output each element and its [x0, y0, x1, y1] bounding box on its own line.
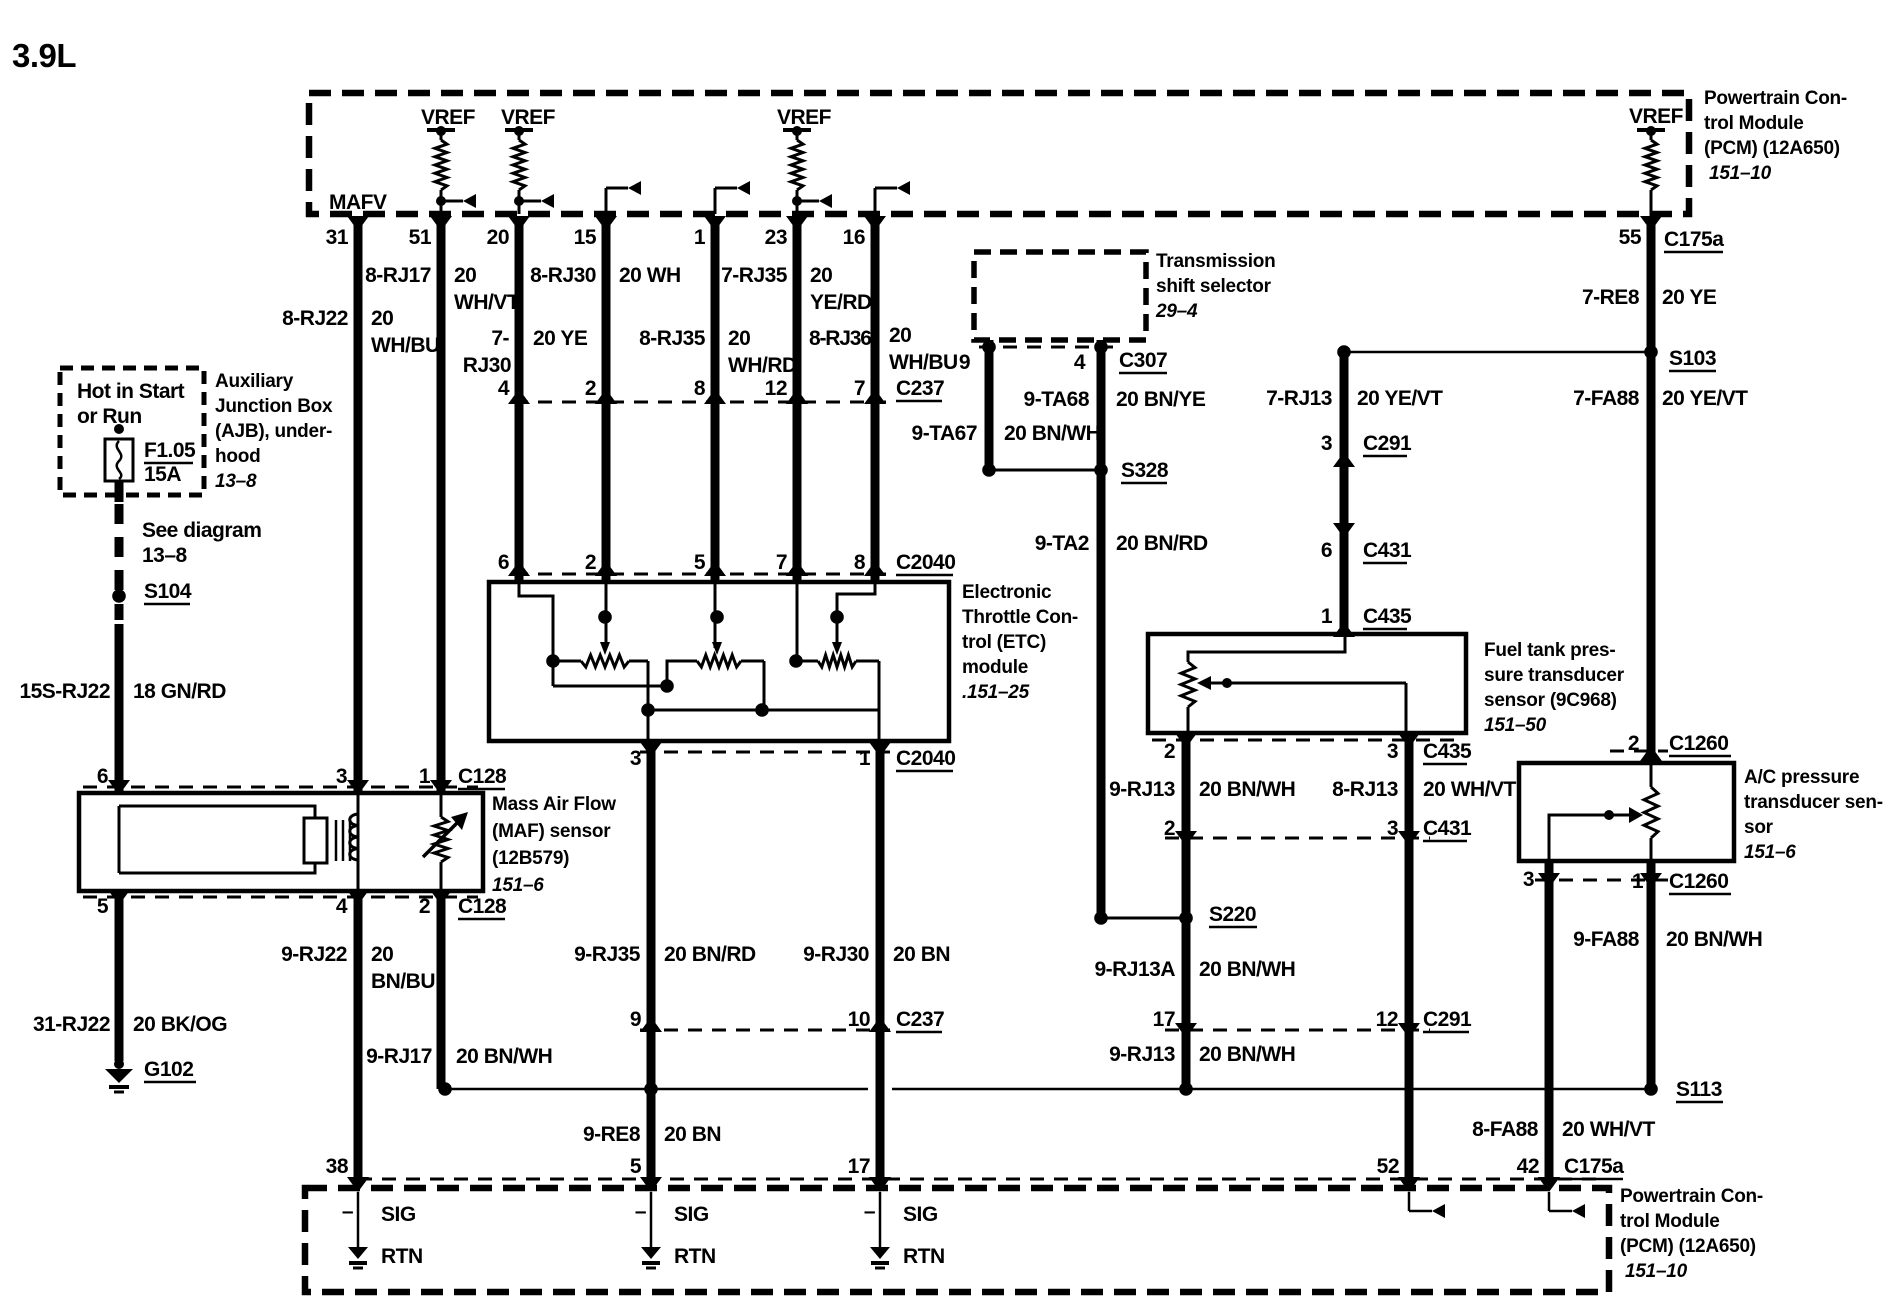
svg-text:C307: C307: [1119, 349, 1167, 372]
svg-text:29–4: 29–4: [1155, 301, 1198, 322]
svg-text:2: 2: [585, 377, 596, 400]
svg-text:20 BN/YE: 20 BN/YE: [1116, 388, 1206, 411]
svg-text:13–8: 13–8: [142, 544, 188, 567]
svg-text:20: 20: [454, 264, 476, 287]
svg-text:Powertrain Con-: Powertrain Con-: [1620, 1186, 1763, 1207]
svg-text:6: 6: [1321, 539, 1332, 562]
svg-text:–: –: [635, 1200, 647, 1223]
svg-text:3: 3: [630, 747, 641, 770]
svg-text:9-TA68: 9-TA68: [1024, 388, 1090, 411]
svg-text:Powertrain Con-: Powertrain Con-: [1704, 88, 1847, 109]
svg-text:1: 1: [1632, 870, 1644, 893]
svg-text:9: 9: [959, 351, 970, 374]
svg-text:20 BN/RD: 20 BN/RD: [1116, 532, 1208, 555]
svg-text:20 YE: 20 YE: [1662, 286, 1717, 309]
svg-text:8-RJ17: 8-RJ17: [365, 264, 431, 287]
svg-text:C1260: C1260: [1669, 732, 1728, 755]
svg-text:SIG: SIG: [674, 1203, 709, 1226]
svg-text:RTN: RTN: [381, 1245, 423, 1268]
svg-text:151–6: 151–6: [1744, 842, 1796, 863]
svg-text:20 WH/VT: 20 WH/VT: [1423, 778, 1517, 801]
svg-text:3: 3: [1321, 432, 1332, 455]
svg-text:SIG: SIG: [381, 1203, 416, 1226]
svg-text:17: 17: [848, 1155, 870, 1178]
svg-text:20 BN: 20 BN: [664, 1123, 721, 1146]
svg-text:23: 23: [765, 226, 787, 249]
svg-text:–: –: [864, 1200, 876, 1223]
svg-text:20 BN/WH: 20 BN/WH: [1004, 422, 1100, 445]
svg-text:20 BN/WH: 20 BN/WH: [1666, 928, 1762, 951]
svg-text:151–50: 151–50: [1484, 715, 1547, 736]
svg-text:trol (ETC): trol (ETC): [962, 632, 1046, 653]
svg-text:trol Module: trol Module: [1620, 1211, 1720, 1232]
svg-text:151–6: 151–6: [492, 875, 544, 896]
svg-text:13–8: 13–8: [215, 471, 257, 492]
svg-text:5: 5: [694, 551, 706, 574]
svg-text:52: 52: [1377, 1155, 1399, 1178]
svg-text:8: 8: [854, 551, 866, 574]
svg-text:20: 20: [810, 264, 832, 287]
svg-text:15A: 15A: [144, 463, 181, 486]
svg-text:C237: C237: [896, 1008, 944, 1031]
svg-text:20: 20: [371, 307, 393, 330]
svg-text:15: 15: [574, 226, 597, 249]
svg-text:4: 4: [336, 895, 348, 918]
svg-text:6: 6: [498, 551, 509, 574]
svg-text:4: 4: [1074, 351, 1086, 374]
svg-text:sure transducer: sure transducer: [1484, 665, 1625, 686]
svg-text:(AJB), under-: (AJB), under-: [215, 421, 332, 442]
svg-text:C128: C128: [458, 765, 507, 788]
svg-text:trol Module: trol Module: [1704, 113, 1804, 134]
svg-text:C2040: C2040: [896, 747, 955, 770]
svg-text:17: 17: [1153, 1008, 1175, 1031]
svg-text:8: 8: [694, 377, 706, 400]
svg-text:VREF: VREF: [777, 106, 832, 129]
svg-text:YE/RD: YE/RD: [810, 291, 872, 314]
svg-text:WH/BU: WH/BU: [371, 334, 440, 357]
svg-text:20: 20: [889, 324, 911, 347]
svg-text:5: 5: [630, 1155, 642, 1178]
svg-text:8-RJ36: 8-RJ36: [809, 327, 871, 350]
svg-text:20: 20: [371, 943, 393, 966]
svg-text:VREF: VREF: [501, 106, 556, 129]
svg-text:3: 3: [1387, 740, 1398, 763]
svg-text:20 BN: 20 BN: [893, 943, 950, 966]
svg-text:C237: C237: [896, 377, 944, 400]
svg-text:20 YE: 20 YE: [533, 327, 588, 350]
svg-text:38: 38: [326, 1155, 349, 1178]
svg-text:20 BN/RD: 20 BN/RD: [664, 943, 756, 966]
svg-text:20 YE/VT: 20 YE/VT: [1357, 387, 1443, 410]
svg-text:1: 1: [1321, 605, 1333, 628]
svg-text:module: module: [962, 657, 1028, 678]
svg-text:C431: C431: [1363, 539, 1412, 562]
svg-text:151–10: 151–10: [1625, 1261, 1688, 1282]
svg-text:RTN: RTN: [674, 1245, 716, 1268]
svg-text:151–10: 151–10: [1709, 163, 1772, 184]
svg-text:sensor (9C968): sensor (9C968): [1484, 690, 1617, 711]
svg-text:8-RJ22: 8-RJ22: [282, 307, 348, 330]
svg-text:VREF: VREF: [1629, 105, 1684, 128]
svg-text:C175a: C175a: [1564, 1155, 1624, 1178]
svg-text:S113: S113: [1676, 1078, 1722, 1101]
svg-text:3: 3: [1523, 868, 1534, 891]
svg-text:5: 5: [97, 895, 109, 918]
svg-text:6: 6: [97, 765, 108, 788]
svg-text:12: 12: [1376, 1008, 1398, 1031]
svg-text:(PCM) (12A650): (PCM) (12A650): [1704, 138, 1840, 159]
svg-text:8-RJ35: 8-RJ35: [639, 327, 706, 350]
svg-text:20 YE/VT: 20 YE/VT: [1662, 387, 1748, 410]
svg-text:9-RJ30: 9-RJ30: [803, 943, 869, 966]
svg-text:S328: S328: [1121, 459, 1169, 482]
svg-text:20 WH: 20 WH: [619, 264, 681, 287]
svg-text:20: 20: [487, 226, 509, 249]
svg-text:9-RJ13A: 9-RJ13A: [1094, 958, 1175, 981]
svg-text:8-FA88: 8-FA88: [1472, 1118, 1539, 1141]
svg-text:See diagram: See diagram: [142, 519, 261, 542]
svg-text:2: 2: [1628, 732, 1639, 755]
svg-text:9-RJ13: 9-RJ13: [1109, 778, 1175, 801]
svg-text:20 BN/WH: 20 BN/WH: [1199, 958, 1295, 981]
svg-text:.151–25: .151–25: [962, 682, 1030, 703]
svg-text:S103: S103: [1669, 347, 1716, 370]
svg-text:C435: C435: [1363, 605, 1412, 628]
svg-text:Transmission: Transmission: [1156, 251, 1276, 272]
svg-text:7-: 7-: [491, 327, 509, 350]
svg-text:9-RJ13: 9-RJ13: [1109, 1043, 1175, 1066]
svg-text:F1.05: F1.05: [144, 439, 196, 462]
svg-text:Throttle Con-: Throttle Con-: [962, 607, 1078, 628]
svg-text:C2040: C2040: [896, 551, 955, 574]
svg-text:9-RJ17: 9-RJ17: [366, 1045, 432, 1068]
svg-text:(12B579): (12B579): [492, 848, 569, 869]
svg-text:A/C pressure: A/C pressure: [1744, 767, 1859, 788]
svg-text:20 BN/WH: 20 BN/WH: [456, 1045, 552, 1068]
svg-text:(PCM) (12A650): (PCM) (12A650): [1620, 1236, 1756, 1257]
svg-text:8-RJ30: 8-RJ30: [530, 264, 596, 287]
svg-text:C291: C291: [1423, 1008, 1472, 1031]
svg-text:(MAF) sensor: (MAF) sensor: [492, 821, 611, 842]
svg-text:20 BN/WH: 20 BN/WH: [1199, 778, 1295, 801]
svg-text:7-RJ13: 7-RJ13: [1266, 387, 1332, 410]
svg-text:RJ30: RJ30: [463, 354, 511, 377]
svg-text:C128: C128: [458, 895, 507, 918]
svg-text:BN/BU: BN/BU: [371, 970, 435, 993]
svg-text:9-TA2: 9-TA2: [1035, 532, 1089, 555]
svg-text:C1260: C1260: [1669, 870, 1728, 893]
svg-text:9-RJ35: 9-RJ35: [574, 943, 641, 966]
svg-text:shift selector: shift selector: [1156, 276, 1272, 297]
svg-text:31-RJ22: 31-RJ22: [33, 1013, 110, 1036]
svg-text:18 GN/RD: 18 GN/RD: [133, 680, 226, 703]
svg-text:Electronic: Electronic: [962, 582, 1052, 603]
svg-text:3.9L: 3.9L: [12, 37, 76, 74]
svg-text:Junction Box: Junction Box: [215, 396, 333, 417]
svg-text:20 WH/VT: 20 WH/VT: [1562, 1118, 1656, 1141]
svg-text:sor: sor: [1744, 817, 1774, 838]
svg-text:7: 7: [854, 377, 865, 400]
svg-text:3: 3: [1387, 817, 1398, 840]
svg-text:9-TA67: 9-TA67: [912, 422, 977, 445]
svg-text:10: 10: [848, 1008, 870, 1031]
svg-text:16: 16: [843, 226, 865, 249]
svg-text:MAFV: MAFV: [329, 191, 387, 214]
svg-text:hood: hood: [215, 446, 260, 467]
svg-text:C291: C291: [1363, 432, 1412, 455]
svg-text:4: 4: [498, 377, 510, 400]
svg-text:7-FA88: 7-FA88: [1573, 387, 1640, 410]
svg-text:or Run: or Run: [77, 405, 142, 428]
svg-text:15S-RJ22: 15S-RJ22: [19, 680, 110, 703]
svg-text:1: 1: [694, 226, 706, 249]
svg-text:7: 7: [776, 551, 787, 574]
svg-text:7-RJ35: 7-RJ35: [721, 264, 788, 287]
svg-text:9-RJ22: 9-RJ22: [281, 943, 347, 966]
svg-text:Hot in Start: Hot in Start: [77, 380, 185, 403]
svg-text:51: 51: [409, 226, 432, 249]
svg-text:Mass Air Flow: Mass Air Flow: [492, 794, 616, 815]
svg-text:2: 2: [419, 895, 430, 918]
svg-text:S104: S104: [144, 580, 192, 603]
svg-text:C435: C435: [1423, 740, 1472, 763]
svg-text:WH/BU: WH/BU: [889, 351, 958, 374]
svg-text:S220: S220: [1209, 903, 1256, 926]
svg-text:Auxiliary: Auxiliary: [215, 371, 294, 392]
svg-text:20 BK/OG: 20 BK/OG: [133, 1013, 227, 1036]
svg-text:8-RJ13: 8-RJ13: [1332, 778, 1398, 801]
svg-text:–: –: [342, 1200, 354, 1223]
svg-text:9: 9: [630, 1008, 641, 1031]
svg-text:G102: G102: [144, 1058, 193, 1081]
svg-text:42: 42: [1517, 1155, 1539, 1178]
svg-text:Fuel tank pres-: Fuel tank pres-: [1484, 640, 1615, 661]
svg-text:VREF: VREF: [421, 106, 476, 129]
svg-text:C175a: C175a: [1664, 228, 1724, 251]
svg-text:7-RE8: 7-RE8: [1582, 286, 1640, 309]
svg-text:20 BN/WH: 20 BN/WH: [1199, 1043, 1295, 1066]
svg-text:SIG: SIG: [903, 1203, 938, 1226]
svg-text:2: 2: [1164, 817, 1175, 840]
svg-text:WH/RD: WH/RD: [728, 354, 797, 377]
svg-text:transducer sen-: transducer sen-: [1744, 792, 1883, 813]
svg-text:31: 31: [326, 226, 349, 249]
svg-text:20: 20: [728, 327, 750, 350]
svg-text:9-FA88: 9-FA88: [1573, 928, 1640, 951]
svg-text:1: 1: [859, 747, 871, 770]
svg-text:2: 2: [1164, 740, 1175, 763]
svg-text:C431: C431: [1423, 817, 1472, 840]
svg-text:WH/VT: WH/VT: [454, 291, 520, 314]
svg-text:2: 2: [585, 551, 596, 574]
svg-text:3: 3: [336, 765, 347, 788]
svg-text:12: 12: [765, 377, 787, 400]
svg-text:RTN: RTN: [903, 1245, 945, 1268]
svg-text:55: 55: [1619, 226, 1642, 249]
svg-text:9-RE8: 9-RE8: [583, 1123, 641, 1146]
svg-text:1: 1: [419, 765, 431, 788]
